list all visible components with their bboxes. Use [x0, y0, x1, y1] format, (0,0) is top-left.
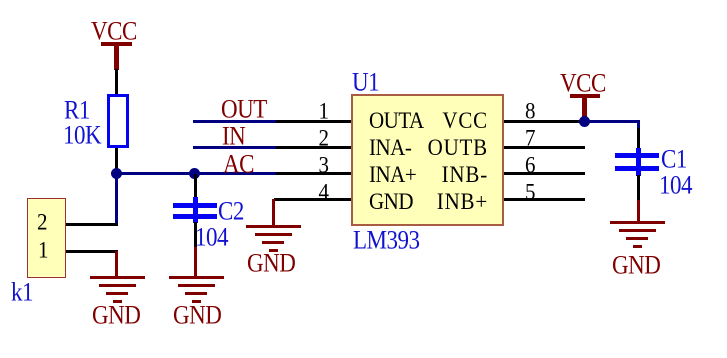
wire C2 bottom pin [194, 222, 197, 248]
net label OUT [221, 96, 267, 122]
ground symbol for pin 4 [0, 0, 1, 1]
pin name INA+ [369, 163, 416, 187]
junction node above C2 [189, 168, 200, 179]
pin number 3 [317, 154, 329, 177]
wire C2 top pin [194, 174, 197, 198]
pin number 8 [525, 100, 536, 123]
pin name INB- [400, 163, 488, 187]
pin name VCC [400, 109, 488, 133]
pin name OUTB [400, 136, 488, 160]
junction node pin 8 / VCC [579, 116, 590, 127]
wire net OUT [193, 120, 276, 123]
value 104 (C2) [195, 224, 228, 250]
wire k1 pin 2 [66, 223, 118, 226]
pin number 5 [525, 181, 536, 204]
pin number 4 [317, 181, 329, 204]
designator k1 [11, 279, 33, 305]
designator U1 [352, 69, 379, 95]
wire VCC to R1 [115, 69, 118, 95]
label C1 [661, 146, 687, 172]
pin 1 label (k1) [38, 239, 49, 262]
ground symbol for C2 [0, 0, 1, 1]
wire AC net horizontal [115, 172, 276, 175]
pin 3 wire [276, 172, 351, 175]
capacitor C2 [0, 0, 1, 1]
pin name OUTA [369, 109, 424, 133]
pin name INB+ [400, 190, 488, 214]
connector k1 body [27, 198, 66, 278]
pin 2 wire [276, 146, 351, 149]
pin 1 wire [276, 120, 351, 123]
pin number 1 [317, 100, 329, 123]
op-amp U1 LM393 body [351, 94, 504, 226]
ground symbol for k1 pin 1 [0, 0, 1, 1]
pin 2 label (k1) [37, 211, 48, 234]
pin name INA- [369, 136, 411, 160]
wire net IN [193, 146, 276, 149]
label R1 [64, 97, 90, 123]
power symbol VCC (right) [0, 0, 1, 1]
resistor R1 [107, 94, 129, 148]
wire node to C1 [0, 0, 1, 1]
power symbol VCC (top-left) [0, 0, 1, 1]
pin 8 wire [504, 120, 585, 123]
pin 6 wire [504, 172, 585, 175]
net label AC [223, 151, 254, 177]
pin 7 wire [504, 146, 585, 149]
value 104 (C1) [659, 172, 692, 198]
label C2 [218, 198, 244, 224]
wire R1 to node [115, 148, 118, 174]
pin 4 wire [274, 198, 351, 201]
value 10K [63, 122, 101, 148]
pin name GND [369, 190, 413, 214]
wire k1 pin 1 [66, 250, 118, 253]
pin number 2 [317, 127, 329, 150]
wire C1 bottom pin [637, 175, 640, 200]
net label IN [222, 123, 245, 149]
wire C1 top pin [637, 128, 640, 149]
junction node below R1 [111, 168, 122, 179]
capacitor C1 [0, 0, 1, 1]
pin number 7 [525, 127, 536, 150]
pin 5 wire [504, 198, 585, 201]
ground symbol for C1 [0, 0, 1, 1]
pin number 6 [525, 154, 536, 177]
wire node down to k1 pin 2 [115, 174, 118, 226]
part type LM393 [353, 227, 420, 253]
